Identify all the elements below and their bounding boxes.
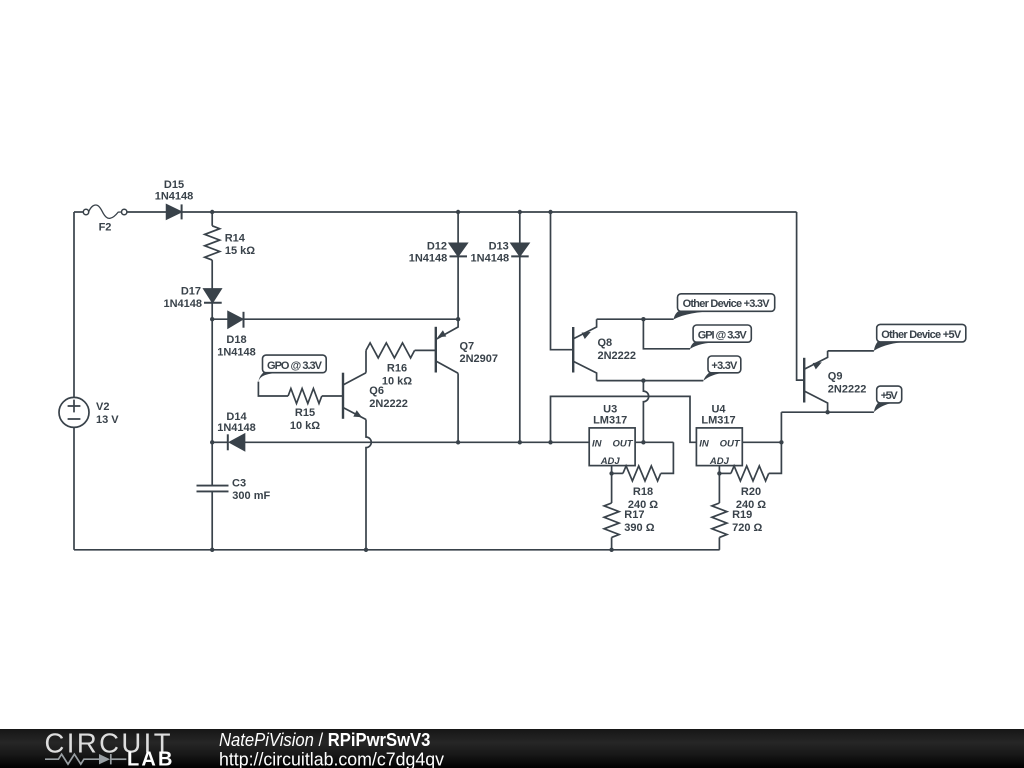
svg-text:R20: R20 (741, 486, 761, 498)
wire Q6 emitter drop with hop over D14 rail (366, 420, 371, 550)
svg-text:1N4148: 1N4148 (471, 253, 510, 265)
svg-text:Q9: Q9 (828, 371, 843, 383)
wire +3.3V node to U3 OUT with hop (643, 381, 648, 443)
svg-text:LAB: LAB (127, 748, 173, 768)
svg-text:2N2907: 2N2907 (460, 353, 499, 365)
svg-text:1N4148: 1N4148 (217, 422, 256, 434)
svg-text:R15: R15 (295, 407, 315, 419)
flag +3.3V (703, 356, 741, 381)
svg-text:390 Ω: 390 Ω (624, 522, 654, 534)
resistor R15 (288, 389, 343, 433)
svg-text:F2: F2 (99, 222, 112, 234)
wire GPI branch (643, 319, 690, 349)
capacitor C3 (197, 442, 271, 550)
wire Q8 emitter to Other Device +3.3V (597, 318, 674, 320)
resistor R14 (205, 212, 256, 289)
flag Other Device +5V (874, 324, 966, 350)
svg-text:LM317: LM317 (701, 415, 735, 427)
svg-text:D13: D13 (489, 241, 509, 253)
svg-text:10 kΩ: 10 kΩ (382, 376, 412, 388)
flag GPI @ 3.3V (690, 325, 751, 349)
svg-text:R16: R16 (387, 363, 407, 375)
IC U3 LM317 (589, 403, 635, 467)
svg-text:U3: U3 (603, 403, 617, 415)
flag +5V (874, 386, 902, 412)
diode D14 (212, 411, 256, 450)
flag Other Device +3.3V (674, 294, 775, 320)
wire bottom ground rail (74, 549, 720, 551)
wire Q7 collector drop (457, 373, 459, 442)
node U4 OUT junction (779, 440, 783, 444)
svg-text:13 V: 13 V (96, 414, 119, 426)
svg-text:OUT: OUT (612, 439, 633, 450)
svg-text:ADJ: ADJ (600, 456, 621, 467)
node Other Device +3.3V branch (641, 317, 645, 321)
svg-text:300 mF: 300 mF (232, 490, 270, 502)
svg-text:GPO @ 3.3V: GPO @ 3.3V (267, 360, 323, 372)
svg-text:2N2222: 2N2222 (828, 384, 867, 396)
svg-text:D18: D18 (226, 334, 246, 346)
node U4 ADJ junction (717, 471, 721, 475)
svg-text:C3: C3 (232, 478, 246, 490)
wire GPO flag to R15 (258, 382, 288, 396)
node D13 bottom junction (518, 440, 522, 444)
voltage source V2 (59, 397, 119, 427)
wire U4 ADJ stub (718, 466, 720, 474)
svg-text:R14: R14 (225, 233, 246, 245)
svg-text:Q7: Q7 (460, 341, 475, 353)
wire D14 to U3 IN rail (245, 441, 590, 443)
footer bar (0, 729, 1024, 768)
wire U4 OUT stub (742, 441, 781, 443)
svg-text:V2: V2 (96, 401, 109, 413)
transistor Q6 (343, 373, 408, 420)
fuse F2 (74, 205, 167, 234)
svg-text:2N2222: 2N2222 (598, 350, 637, 362)
wire left rail top segment (73, 212, 75, 397)
svg-text:D17: D17 (181, 286, 201, 298)
svg-text:LM317: LM317 (593, 415, 627, 427)
transistor Q8 (573, 319, 636, 380)
diode D12 (409, 212, 467, 319)
transistor Q9 (804, 351, 866, 412)
svg-text:10 kΩ: 10 kΩ (290, 420, 320, 432)
svg-text:U4: U4 (711, 403, 726, 415)
svg-text:D12: D12 (427, 241, 447, 253)
svg-text:+3.3V: +3.3V (711, 360, 738, 372)
svg-text:D15: D15 (164, 179, 184, 191)
resistor R17 (604, 473, 655, 549)
svg-text:Q8: Q8 (598, 337, 613, 349)
svg-text:IN: IN (699, 439, 710, 450)
svg-text:15 kΩ: 15 kΩ (225, 245, 255, 257)
svg-text:Other Device +3.3V: Other Device +3.3V (683, 298, 771, 310)
flag GPO @ 3.3V (258, 355, 326, 382)
svg-text:R17: R17 (624, 509, 644, 521)
resistor R16 (366, 343, 436, 388)
transistor Q7 (436, 319, 498, 373)
node top rail at Q8 base (548, 210, 552, 214)
node U3 ADJ junction (609, 471, 613, 475)
wire Q9 collector down to U4 OUT (780, 412, 782, 442)
node D14 left junction (210, 440, 214, 444)
wire Q8 base from top rail (551, 212, 574, 350)
resistor R19 (712, 473, 763, 549)
node Q6 emitter at ground rail (364, 548, 368, 552)
diode D18 (212, 312, 256, 359)
svg-text:http://circuitlab.com/c7dg4qv: http://circuitlab.com/c7dg4qv (219, 749, 444, 768)
wire Q9 collector rail (781, 411, 874, 413)
svg-text:GPI @ 3.3V: GPI @ 3.3V (698, 329, 748, 341)
node IN-link junction (548, 440, 552, 444)
diode D15 (155, 179, 194, 219)
diode D17 (163, 286, 221, 311)
wire main left vertical (D17 to D14 node) (211, 303, 213, 443)
svg-text:NatePiVision / RPiPwrSwV3: NatePiVision / RPiPwrSwV3 (219, 729, 431, 750)
svg-text:1N4148: 1N4148 (163, 298, 202, 310)
svg-text:R19: R19 (732, 509, 752, 521)
node Q7 collector junction (456, 440, 460, 444)
wire top rail (182, 211, 797, 213)
node U3 OUT junction (641, 440, 645, 444)
svg-text:Other Device +5V: Other Device +5V (881, 329, 962, 341)
svg-text:1N4148: 1N4148 (155, 191, 194, 203)
node C3 at ground rail (210, 548, 214, 552)
wire U3 ADJ stub (611, 466, 613, 474)
wire D18 to Q7 emitter node (244, 318, 459, 320)
resistor R20 (719, 442, 781, 511)
wire Q6 collector riser (365, 350, 367, 372)
svg-text:IN: IN (592, 439, 603, 450)
diode D13 (471, 212, 529, 442)
wire left rail bottom segment (73, 427, 75, 549)
svg-text:720 Ω: 720 Ω (732, 522, 762, 534)
IC U4 LM317 (696, 403, 742, 467)
node +3.3V branch (641, 378, 645, 382)
svg-text:ADJ: ADJ (709, 456, 730, 467)
svg-text:1N4148: 1N4148 (409, 253, 448, 265)
svg-text:1N4148: 1N4148 (217, 347, 256, 359)
wire U3 OUT stub (635, 441, 673, 443)
wire Q9 base from top rail (797, 212, 805, 380)
svg-text:2N2222: 2N2222 (369, 398, 408, 410)
wire IN link from U3 IN to U4 IN (551, 396, 697, 442)
node top rail at D13 (518, 210, 522, 214)
node D18 junction (210, 317, 214, 321)
wire Q8 collector to +3.3V flag (597, 380, 704, 382)
svg-text:R18: R18 (633, 486, 653, 498)
node top rail at R14 (210, 210, 214, 214)
node top rail at D12 (456, 210, 460, 214)
resistor R18 (612, 442, 674, 511)
svg-text:+5V: +5V (881, 390, 899, 402)
logo resistor-diode glyph (45, 754, 126, 764)
node Q7 emitter / D12 junction (456, 317, 460, 321)
svg-text:OUT: OUT (720, 439, 741, 450)
node R17 at ground rail (609, 548, 613, 552)
wire Q9 emitter to Other Device +5V (828, 350, 874, 352)
node Q9 collector junction (825, 410, 829, 414)
